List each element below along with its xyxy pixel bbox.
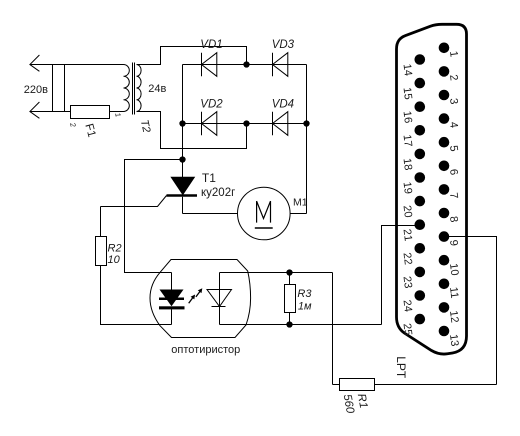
wire: secondary top to bridge node A	[137, 47, 247, 65]
svg-text:ку202г: ку202г	[201, 187, 235, 199]
connector pin 13	[439, 326, 461, 347]
fuse F1	[71, 106, 110, 119]
connector pin 24	[401, 290, 426, 313]
svg-text:220в: 220в	[24, 84, 48, 96]
wire: top rail down to R1	[332, 273, 334, 385]
wire: R1 leads	[333, 384, 340, 386]
connector pin 17	[401, 125, 426, 148]
wire: R2 bottom to LED cathode rail	[101, 266, 172, 325]
svg-text:15: 15	[401, 87, 414, 101]
connector pin 19	[401, 172, 426, 195]
svg-text:R3: R3	[297, 288, 312, 300]
connector pin 15	[401, 78, 426, 101]
wire: top AC lead	[30, 64, 124, 66]
wire: motor right to bridge node D	[290, 213, 306, 215]
wire: bottom AC lead	[30, 111, 71, 113]
connector pin 21	[401, 219, 426, 242]
resistor R3	[285, 285, 296, 313]
thyristor T1	[171, 177, 194, 194]
svg-text:12: 12	[447, 310, 460, 324]
wire: right vertical up to pin 9	[444, 237, 497, 385]
LPT connector DB-25 body	[397, 24, 467, 354]
optothyristor body	[150, 260, 251, 338]
svg-text:13: 13	[447, 334, 460, 348]
svg-text:M1: M1	[293, 197, 308, 209]
junction R3 bottom	[286, 321, 292, 327]
wire: secondary bottom to bridge node C	[137, 112, 247, 149]
svg-text:24в: 24в	[148, 83, 166, 95]
connector pin 12	[439, 302, 461, 323]
svg-text:19: 19	[401, 181, 414, 195]
connector pin 2	[439, 66, 460, 81]
connector pin 18	[401, 149, 426, 172]
junction node A	[243, 61, 249, 67]
svg-text:25: 25	[401, 323, 414, 337]
svg-text:VD4: VD4	[272, 99, 294, 111]
motor M1	[237, 187, 290, 240]
diode VD2	[201, 112, 203, 136]
plug prong arrow bottom	[30, 102, 40, 118]
connector pin 11	[439, 279, 461, 300]
wire: output top rail	[220, 272, 333, 274]
junction at T1 anode	[179, 156, 185, 162]
wire: gate branch down to R2	[100, 207, 102, 237]
transformer T2 secondary winding	[137, 65, 142, 112]
junction R3 top	[286, 269, 292, 275]
diode VD4	[272, 112, 274, 136]
svg-text:10: 10	[447, 263, 460, 277]
T1 gate wire	[101, 196, 167, 207]
junction node C	[243, 120, 249, 126]
svg-text:22: 22	[401, 252, 414, 266]
connector pin 5	[439, 137, 460, 152]
junction node D	[303, 120, 309, 126]
resistor R2	[96, 237, 107, 266]
wire: T1 cathode to motor	[183, 213, 238, 215]
wire: output bottom rail	[220, 324, 382, 326]
svg-text:21: 21	[401, 228, 414, 242]
transformer T2 core	[132, 63, 134, 115]
svg-text:24: 24	[401, 299, 414, 313]
transformer T2 primary winding	[124, 65, 130, 112]
wire: bridge row 1	[183, 64, 307, 66]
svg-text:18: 18	[401, 158, 414, 172]
connector pin 16	[401, 101, 426, 124]
plug prong arrow top	[30, 55, 40, 71]
svg-text:VD1: VD1	[200, 39, 222, 51]
AC connector double bars	[52, 65, 54, 112]
svg-text:16: 16	[401, 110, 414, 124]
svg-text:T1: T1	[202, 171, 216, 185]
LED inside optothyristor	[171, 273, 173, 290]
svg-text:17: 17	[401, 134, 414, 148]
connector pin 10	[439, 255, 461, 276]
connector pin 7	[439, 184, 460, 199]
connector pin 4	[439, 113, 460, 128]
wire: bridge right vertical down to motor	[306, 65, 308, 214]
wire: LED feed branch	[125, 160, 183, 273]
svg-text:R1: R1	[355, 393, 369, 410]
svg-text:оптотиристор: оптотиристор	[171, 344, 240, 356]
svg-text:14: 14	[401, 63, 414, 77]
diode VD1	[201, 53, 203, 77]
photothyristor inside optothyristor	[219, 273, 221, 325]
wire: bottom rail up to pin 21	[382, 226, 420, 325]
wire: bridge row 2	[183, 123, 307, 125]
wire: bridge left vertical	[182, 65, 184, 124]
connector pin 22	[401, 243, 426, 266]
junction node B	[179, 120, 185, 126]
svg-text:10: 10	[108, 254, 121, 266]
svg-text:1м: 1м	[298, 301, 312, 313]
connector pin 9	[439, 231, 460, 246]
connector pin 8	[439, 208, 460, 223]
wire: node B down to thyristor T1 anode	[182, 124, 184, 178]
connector pin 6	[439, 161, 460, 176]
connector pin 14	[401, 54, 426, 77]
svg-text:VD2: VD2	[200, 99, 223, 111]
svg-text:23: 23	[401, 276, 414, 290]
svg-text:20: 20	[401, 205, 414, 219]
connector pin 25	[401, 314, 426, 337]
svg-text:11: 11	[447, 286, 460, 299]
connector pin 20	[401, 196, 426, 219]
connector pin 1	[439, 43, 460, 58]
svg-text:VD3: VD3	[272, 39, 295, 51]
light emission arrows	[189, 288, 203, 303]
diode VD3	[272, 53, 274, 77]
connector pin 23	[401, 267, 426, 290]
connector pin 3	[439, 90, 460, 105]
resistor R1	[340, 379, 375, 391]
svg-text:LPT: LPT	[394, 356, 408, 379]
svg-text:R2: R2	[108, 243, 122, 255]
